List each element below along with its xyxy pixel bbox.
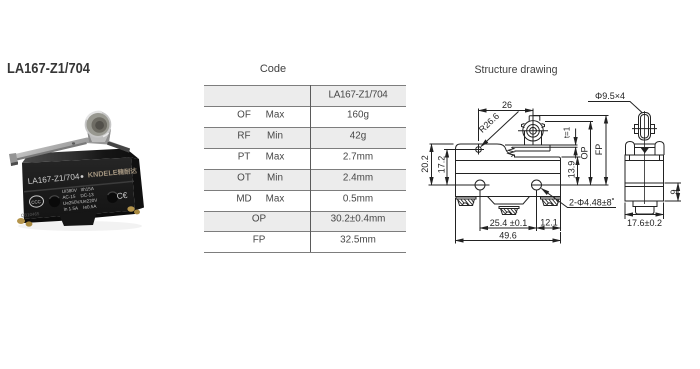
body front face: [22, 158, 135, 220]
dim 49.6: [456, 240, 561, 242]
side lever ears: [626, 142, 665, 156]
dim 17.2: [444, 149, 484, 151]
svg-text:OP: OP: [580, 146, 590, 159]
dim 20.2: [430, 143, 454, 145]
svg-text:FP: FP: [594, 144, 604, 156]
plunger spring zigzag: [508, 148, 514, 157]
table horizontal lines: [204, 85, 406, 86]
bottom outline with terminals: [456, 197, 561, 205]
lever arm lines: [505, 145, 578, 151]
svg-text:17.6±0.2: 17.6±0.2: [627, 218, 662, 228]
front face seam line: [24, 181, 134, 193]
body top face: [22, 149, 139, 164]
roller top tab: [529, 116, 540, 121]
roller bracket: [87, 129, 111, 142]
dim 9: [665, 183, 682, 201]
svg-text:12.1: 12.1: [540, 218, 558, 228]
terminal screw gold right: [127, 206, 134, 212]
pivot hole: [476, 147, 482, 153]
structure drawing svg: [410, 85, 700, 250]
table row texts: [329, 89, 388, 100]
table vertical divider: [310, 85, 311, 252]
svg-text:26: 26: [502, 100, 512, 110]
svg-text:20.2: 20.2: [420, 155, 430, 173]
lever tip bend: [9, 153, 18, 166]
screw recess right on face: [107, 192, 118, 203]
ext lines below: [456, 191, 561, 244]
leader phi9.5: [588, 102, 642, 113]
svg-text:CCC: CCC: [31, 199, 41, 205]
leader R26.6: [481, 112, 519, 147]
mounting hole right: [532, 180, 542, 190]
svg-text:2-Φ4.48±8˚: 2-Φ4.48±8˚: [569, 198, 615, 208]
header Structure drawing: [474, 64, 557, 76]
mounting hole left: [475, 180, 485, 190]
body seam lines: [456, 161, 561, 174]
bracket legs: [525, 131, 542, 145]
middle terminal screw: [499, 207, 519, 215]
dim 12.1: [537, 227, 561, 229]
dim 17.6: [625, 203, 664, 220]
side center line: [644, 111, 646, 204]
body bottom base band: [24, 211, 135, 224]
lever arm: [15, 138, 130, 161]
FP ext and dim: [533, 115, 609, 117]
ratings text: [62, 186, 99, 212]
title LA167-Z1/704: [7, 61, 90, 77]
leader 2-Phi: [542, 189, 617, 208]
OP ext and dim: [545, 121, 593, 123]
right terminal screw: [541, 197, 561, 206]
table gray rows: [204, 85, 406, 106]
dim t=1 arrows: [575, 129, 577, 146]
body right side face: [131, 158, 144, 211]
screw recess left on face: [49, 196, 60, 207]
svg-text:13.9: 13.9: [567, 161, 577, 179]
front view body outline: [456, 144, 561, 197]
lever hole: [72, 142, 75, 144]
svg-text:9: 9: [669, 189, 679, 194]
svg-text:C€: C€: [116, 190, 128, 201]
photo shadow: [18, 221, 142, 231]
svg-text:49.6: 49.6: [499, 231, 517, 241]
CCC logo: [29, 195, 44, 208]
side body: [625, 155, 664, 201]
terminal screw gold left: [17, 218, 25, 224]
roller front: [523, 121, 543, 141]
svg-text:Φ9.5×4: Φ9.5×4: [595, 91, 625, 101]
side nut: [633, 201, 657, 207]
hole center line ext left: [429, 184, 490, 186]
dim texts: [420, 91, 679, 241]
left terminal screw: [456, 197, 476, 206]
side axle tabs: [635, 125, 655, 134]
svg-text:25.4 ±0.1: 25.4 ±0.1: [490, 218, 527, 228]
roller: [85, 111, 112, 138]
dim 13.9: [532, 157, 609, 185]
product photo svg: [0, 95, 160, 240]
header Code: [260, 63, 286, 75]
dim 25.4: [480, 227, 537, 229]
terminal center tab: [59, 211, 97, 226]
svg-text:t=1: t=1: [563, 126, 572, 138]
svg-text:17.2: 17.2: [437, 156, 447, 174]
dim 26: [479, 109, 534, 142]
side view roller: [639, 113, 651, 141]
